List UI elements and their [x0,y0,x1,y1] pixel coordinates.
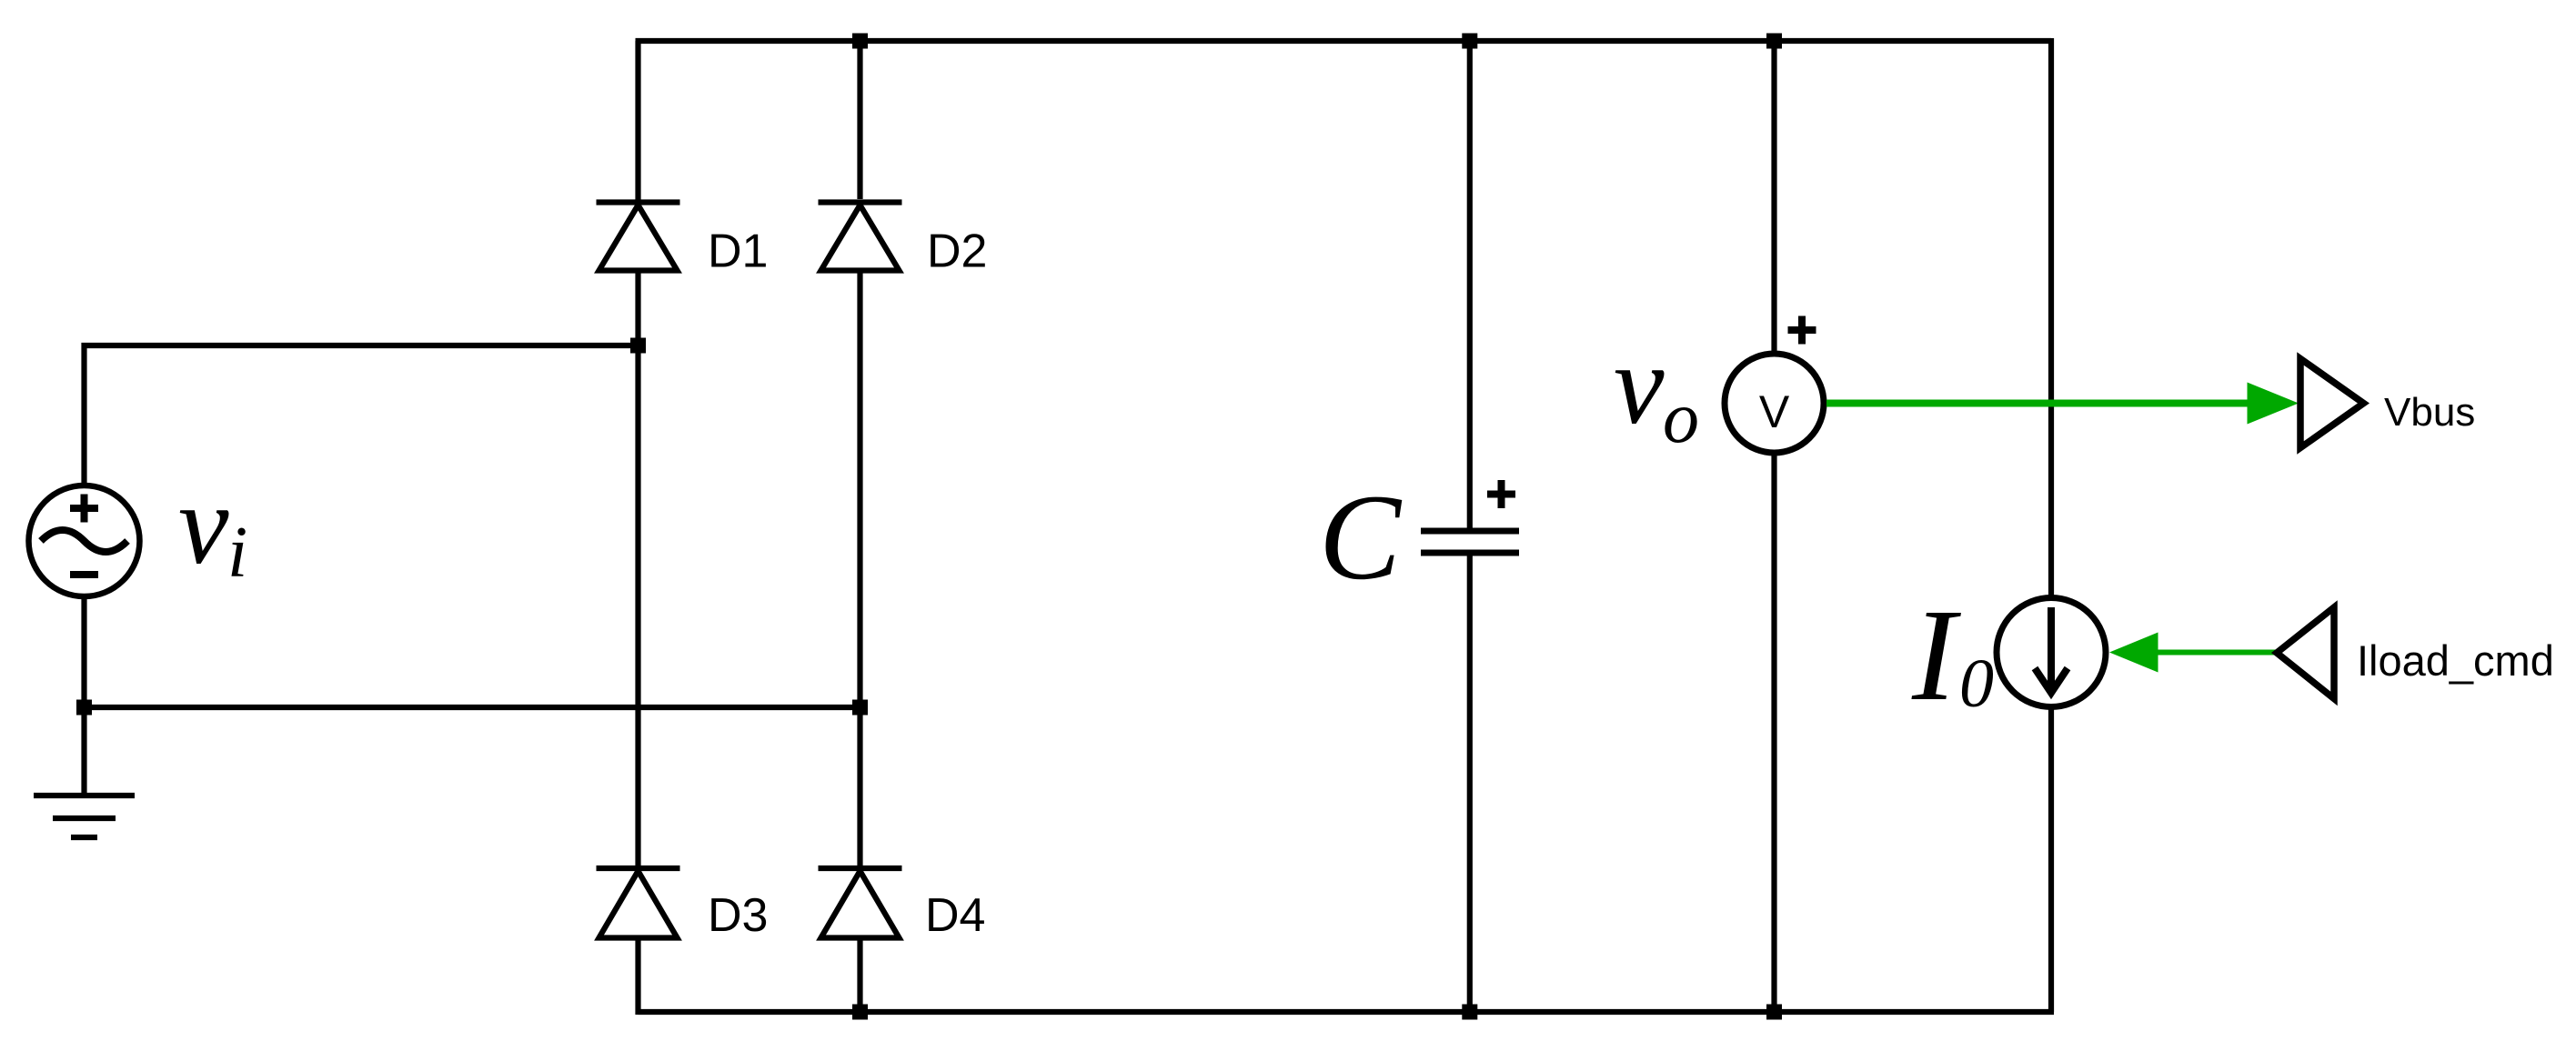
svg-text:D3: D3 [708,889,768,942]
wire green vbus tap [1826,400,2253,407]
node bottom rail at D4 [852,1005,868,1020]
node vi bottom junction [76,700,92,716]
svg-text:D4: D4 [925,889,985,942]
wire right rail upper [2048,38,2054,597]
wire D2-D4 middle segment [857,271,862,866]
svg-text:D1: D1 [708,225,768,278]
wire bottom rail [639,1009,2055,1015]
node input-top junction [630,338,646,354]
svg-text:v: v [1614,323,1665,448]
wire green vbus arrowhead [2248,383,2299,425]
diode D4 [819,868,902,938]
label vi [178,463,247,593]
wire D1-D3 middle segment [635,271,640,866]
svg-text:I: I [1911,583,1961,728]
port Vbus [2300,359,2364,448]
wire right rail lower [2048,707,2054,1012]
svg-text:Iload_cmd: Iload_cmd [2357,636,2554,685]
wire green iload cmd [2154,650,2276,656]
wire ground stem [81,707,86,796]
ground [34,796,135,837]
wire bottom input to bridge [85,705,860,710]
svg-text:i: i [227,513,247,593]
svg-text:D2: D2 [927,225,987,278]
node bottom rail at V probe [1766,1005,1782,1020]
diode D1 [597,203,680,271]
svg-text:Vbus: Vbus [2384,390,2475,435]
port Iload_cmd [2277,607,2334,699]
wire D3 bottom segment [635,938,640,1016]
label I0 [1911,583,1994,728]
node top rail at C [1462,34,1477,49]
wire top rail [636,38,2052,44]
wire green iload arrowhead [2109,633,2158,673]
node bottom rail at C [1462,1005,1477,1020]
wire D2 branch top [857,41,862,199]
svg-text:C: C [1319,470,1403,606]
voltmeter probe vo [1725,41,1824,1012]
current source I0 [1997,598,2106,707]
svg-text:o: o [1663,378,1699,458]
svg-text:v: v [178,463,229,588]
diode D3 [597,868,680,938]
svg-text:V: V [1759,386,1790,437]
svg-text:0: 0 [1959,646,1994,722]
node bridge input-bottom junction [852,700,868,716]
wire D1 branch top (anode rail corner) [635,41,640,202]
node top rail at D2 [852,34,868,49]
wire vi top lead to bridge input [85,345,639,485]
node top rail at V probe [1766,34,1782,49]
source vi (AC source) [29,485,140,596]
diode D2 [819,203,902,271]
wire D4 bottom segment [857,938,862,1013]
label vo [1614,323,1699,458]
wire vi bottom lead [81,596,86,707]
capacitor C [1421,41,1519,1012]
